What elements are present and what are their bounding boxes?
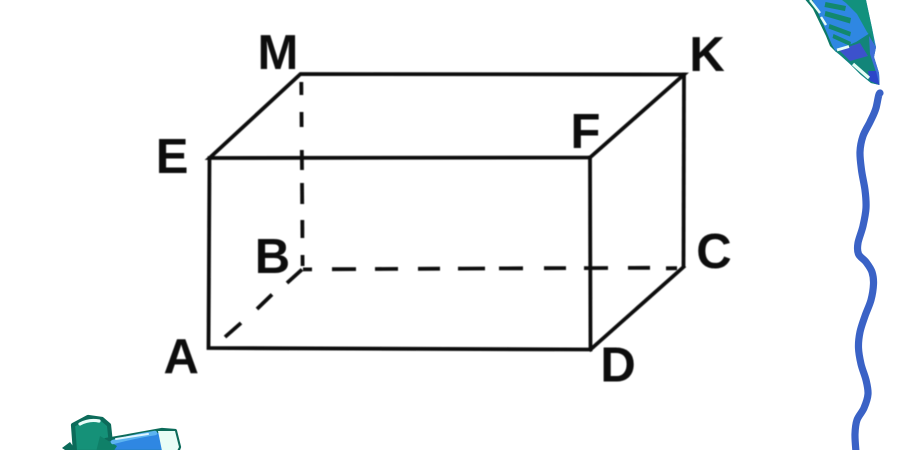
svg-text:C: C	[696, 225, 731, 279]
svg-text:D: D	[600, 339, 635, 393]
svg-text:B: B	[255, 230, 290, 284]
svg-text:K: K	[689, 28, 724, 82]
svg-text:M: M	[258, 26, 299, 80]
svg-text:F: F	[571, 105, 601, 159]
svg-text:E: E	[156, 130, 189, 184]
svg-text:A: A	[164, 330, 199, 384]
